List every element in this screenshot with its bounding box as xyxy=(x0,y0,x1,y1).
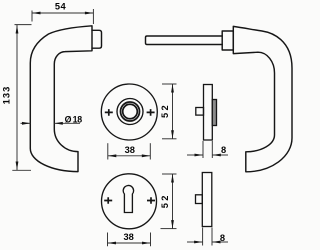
dim 52 upper rosette xyxy=(172,84,174,139)
svg-text:8: 8 xyxy=(221,145,226,155)
upper rosette ring outer xyxy=(117,99,143,125)
handle grip front view xyxy=(233,26,292,171)
keyhole xyxy=(123,185,133,212)
lower rosette outer circle xyxy=(102,174,157,229)
upper rosette ring inner bold xyxy=(121,102,140,121)
svg-text:52: 52 xyxy=(160,193,170,208)
dim 38 upper rosette xyxy=(107,143,109,159)
dim 8 upper side view xyxy=(202,141,204,158)
spindle rod xyxy=(146,36,223,45)
svg-text:54: 54 xyxy=(55,2,67,12)
svg-text:52: 52 xyxy=(160,103,170,118)
dim Ø18 (leader) xyxy=(21,122,31,124)
svg-text:Ø 18: Ø 18 xyxy=(65,115,83,125)
svg-text:8: 8 xyxy=(220,233,225,243)
dim 133 (left) xyxy=(16,25,18,170)
dim 38 lower rosette xyxy=(107,233,109,247)
svg-text:38: 38 xyxy=(125,145,135,155)
svg-text:38: 38 xyxy=(124,232,134,242)
dimension texts xyxy=(2,2,227,244)
rosette side view lower xyxy=(196,173,212,227)
upper rosette outer circle xyxy=(101,84,157,140)
dim 8 lower side view xyxy=(202,228,204,246)
lever handle side view (left, vertical) xyxy=(30,26,92,172)
screw marks lower rosette xyxy=(104,197,112,204)
rosette side view upper xyxy=(196,85,217,141)
neck collar xyxy=(222,31,233,50)
dim 54 (top) xyxy=(32,12,93,14)
ferrule on handle neck xyxy=(92,30,102,48)
svg-text:133: 133 xyxy=(2,86,12,105)
screw marks upper rosette xyxy=(104,109,155,204)
dim 52 lower rosette xyxy=(172,174,174,229)
